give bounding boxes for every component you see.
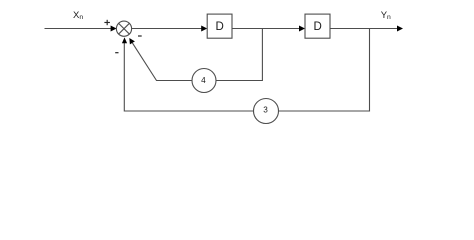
gain block 3 circle xyxy=(254,99,279,124)
arrowhead diagonal into summer xyxy=(129,38,135,44)
label - sign lower left of summer xyxy=(115,52,118,53)
summing junction X stroke 1 xyxy=(119,23,130,34)
wire node A drop from between delays to gain 4 xyxy=(216,29,262,81)
svg-text:D: D xyxy=(313,21,321,33)
wire input line xyxy=(45,28,112,30)
wire summer to D1 xyxy=(132,28,202,30)
svg-text:D: D xyxy=(215,21,223,33)
wire node B drop from output to gain 3 xyxy=(279,29,370,112)
block D1 xyxy=(207,14,232,38)
svg-text:Xn: Xn xyxy=(73,10,83,21)
arrowhead vertical into summer xyxy=(122,37,127,43)
arrowhead into D2 xyxy=(299,26,305,32)
label - sign right of summer xyxy=(138,35,142,36)
arrowhead into D1 xyxy=(201,26,207,32)
summing junction U1 circle xyxy=(116,21,131,36)
output arrowhead xyxy=(397,26,403,32)
block D2 xyxy=(305,14,330,38)
wire gain 4 to summer diagonal xyxy=(132,43,192,81)
wire gain 3 back up to summer xyxy=(124,43,253,111)
svg-text:Yn: Yn xyxy=(381,10,391,21)
arrowhead into summer xyxy=(111,26,117,32)
svg-text:4: 4 xyxy=(201,76,206,85)
svg-text:3: 3 xyxy=(263,105,268,114)
gain block 4 circle xyxy=(192,69,216,93)
wire D2 to output xyxy=(330,28,397,30)
label + sign xyxy=(104,20,110,25)
summing junction X stroke 2 xyxy=(119,23,130,34)
wire D1 to D2 xyxy=(232,28,299,30)
